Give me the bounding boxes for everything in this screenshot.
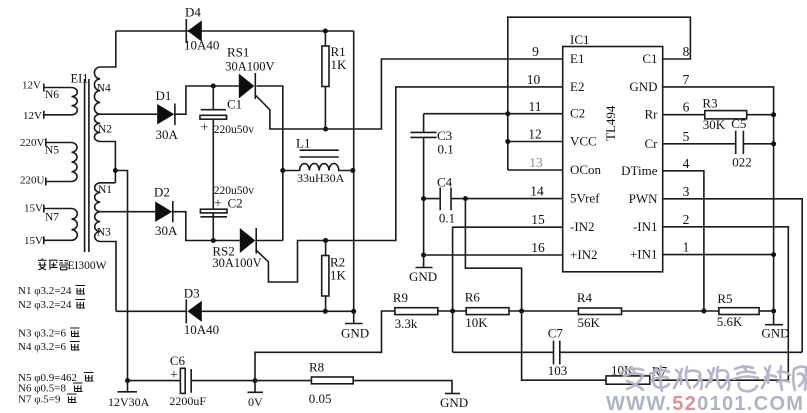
- wire RS2 gate to E2 (pin 10): [256, 87, 563, 282]
- svg-text:GND: GND: [341, 326, 369, 341]
- winding spec list: [18, 285, 77, 406]
- transformer EI1 core: [71, 72, 89, 253]
- svg-text:16: 16: [531, 240, 545, 255]
- winding N6 primary left: [22, 80, 77, 123]
- wire x=353.7 vertical from top rail to GND junction: [353, 31, 355, 311]
- svg-text:GND: GND: [761, 326, 789, 341]
- svg-text:-IN1: -IN1: [633, 219, 658, 234]
- svg-text:N1: N1: [98, 184, 112, 196]
- svg-text:C2: C2: [228, 196, 243, 211]
- U1 pin labels left: [570, 51, 602, 262]
- svg-text:N7: N7: [45, 212, 59, 224]
- svg-text:D3: D3: [184, 286, 200, 301]
- svg-text:D1: D1: [156, 88, 172, 103]
- svg-text:1K: 1K: [331, 57, 348, 72]
- inductor L1: [283, 136, 353, 186]
- node 0V junction: [253, 378, 258, 383]
- wire RS1 gate to E1 (pin 9): [256, 59, 563, 129]
- svg-text:30A100V: 30A100V: [212, 256, 261, 270]
- svg-text:220U: 220U: [20, 175, 45, 187]
- ground below C3 rail: [409, 268, 437, 285]
- svg-text:0.1: 0.1: [439, 211, 455, 226]
- svg-text:4: 4: [683, 156, 690, 171]
- svg-text:TL494: TL494: [603, 105, 618, 141]
- transformer spec label: [38, 258, 107, 272]
- svg-text:3.3k: 3.3k: [395, 316, 418, 331]
- svg-text:14: 14: [530, 184, 544, 199]
- capacitor C3: [410, 114, 453, 268]
- svg-text:C4: C4: [437, 175, 453, 190]
- wire N1/N3 tap to D2: [100, 211, 155, 213]
- svg-text:+: +: [170, 368, 178, 383]
- svg-text:R9: R9: [393, 290, 408, 305]
- node R6/R4 junction: [519, 309, 524, 314]
- IC U1 TL494 box: [563, 32, 663, 272]
- svg-text:11: 11: [529, 99, 542, 114]
- wire pin 11 row: [424, 113, 563, 115]
- resistor R1: [322, 31, 347, 129]
- ground right rail: [761, 311, 789, 341]
- svg-text:R8: R8: [309, 360, 324, 375]
- wire pin 1 row: [663, 254, 774, 256]
- node pin16 junction: [421, 253, 426, 258]
- svg-text:N4: N4: [97, 83, 111, 95]
- svg-text:R4: R4: [577, 290, 593, 305]
- svg-text:C1: C1: [227, 97, 242, 112]
- svg-text:N3 φ3.2=6: N3 φ3.2=6: [18, 328, 66, 340]
- svg-text:022: 022: [732, 155, 752, 170]
- wire 5Vref drop to R6/R4 node: [465, 199, 521, 311]
- power terminal 0V: [248, 381, 264, 409]
- zha glyphs for spec list: [67, 286, 94, 403]
- svg-text:15: 15: [531, 212, 545, 227]
- wire N4/N2 tap to D1: [100, 113, 157, 115]
- svg-text:E2: E2: [570, 79, 584, 94]
- resistor R2: [322, 241, 347, 312]
- node C4 left junction: [421, 196, 426, 201]
- svg-text:EI300W: EI300W: [68, 260, 107, 272]
- capacitor C4: [424, 175, 563, 226]
- U1 pin labels right: [621, 51, 658, 262]
- svg-text:N2: N2: [98, 124, 112, 136]
- svg-text:10: 10: [527, 72, 541, 87]
- node R2 top junction: [323, 238, 328, 243]
- svg-text:30A100V: 30A100V: [225, 60, 274, 74]
- node 12V30A junction: [125, 378, 130, 383]
- svg-text:1K: 1K: [330, 268, 347, 283]
- svg-text:5Vref: 5Vref: [570, 191, 600, 206]
- watermark cursive site name: [622, 366, 807, 391]
- svg-text:220V: 220V: [20, 137, 45, 149]
- svg-text:N3: N3: [97, 227, 111, 239]
- svg-text:GND: GND: [629, 79, 657, 94]
- winding N1 right: [95, 183, 116, 212]
- wire pin 16 row: [424, 254, 563, 256]
- node L1 left junction: [280, 168, 285, 173]
- svg-text:30A: 30A: [155, 223, 178, 238]
- svg-text:DTime: DTime: [621, 163, 658, 178]
- svg-text:N1 φ3.2=24: N1 φ3.2=24: [18, 285, 72, 297]
- svg-text:GND: GND: [440, 395, 468, 410]
- svg-text:OCon: OCon: [570, 162, 602, 177]
- svg-text:12V: 12V: [23, 110, 42, 122]
- svg-text:Rr: Rr: [645, 107, 659, 122]
- resistor R4: [577, 290, 719, 330]
- svg-text:D4: D4: [185, 5, 201, 20]
- wire pin 3 PWN drop to C7 right: [663, 199, 803, 352]
- node pin 12 rail junction: [505, 139, 510, 144]
- resistor R6: [465, 290, 579, 331]
- node R4/R5 junction: [701, 309, 706, 314]
- ground right of R8: [440, 394, 468, 411]
- svg-text:C1: C1: [642, 51, 657, 66]
- node R5 right junction: [771, 309, 776, 314]
- svg-text:+IN1: +IN1: [630, 247, 658, 262]
- svg-text:15V: 15V: [24, 203, 43, 215]
- svg-text:R6: R6: [465, 290, 481, 305]
- thyristor RS1: [225, 45, 274, 100]
- svg-text:30K: 30K: [703, 117, 726, 132]
- svg-text:E1: E1: [570, 51, 584, 66]
- svg-text:PWN: PWN: [629, 191, 659, 206]
- node GND tap junction: [351, 309, 356, 314]
- svg-text:EI1: EI1: [71, 72, 89, 86]
- node C2 bottom junction: [211, 238, 216, 243]
- svg-text:2: 2: [683, 212, 690, 227]
- node R1 bottom junction: [323, 127, 328, 132]
- resistor R9: [393, 290, 466, 331]
- resistor R8: [309, 360, 353, 407]
- wire bottom 12V rail: [128, 381, 453, 394]
- svg-text:0.05: 0.05: [309, 391, 332, 406]
- svg-text:5.6K: 5.6K: [717, 314, 743, 329]
- svg-text:C6: C6: [170, 353, 186, 368]
- svg-text:R3: R3: [702, 96, 717, 111]
- winding N2 right: [94, 114, 115, 183]
- winding N3 right: [95, 212, 116, 312]
- winding N5 mains left: [20, 137, 77, 187]
- wire D2 cathode to RS2 anode rail: [173, 212, 240, 241]
- svg-text:10K: 10K: [465, 315, 488, 330]
- svg-text:N2 φ3.2=24: N2 φ3.2=24: [18, 299, 72, 311]
- svg-text:0V: 0V: [248, 395, 263, 409]
- wire R6/R4 node drop to R7: [522, 311, 606, 380]
- svg-text:VCC: VCC: [570, 134, 597, 149]
- svg-text:1: 1: [683, 240, 690, 255]
- wire pin 4 DTime drop to R4/R5 node: [663, 171, 704, 311]
- node C4 right junction: [463, 196, 468, 201]
- svg-text:9: 9: [532, 44, 539, 59]
- svg-text:8: 8: [683, 44, 690, 59]
- svg-text:13: 13: [529, 155, 543, 170]
- capacitor C6: [169, 353, 206, 408]
- resistor R7: [606, 363, 788, 385]
- wire left rail pins 8/11/12/13 loop: [508, 17, 691, 170]
- svg-text:7: 7: [683, 72, 690, 87]
- resistor R3: [663, 96, 774, 133]
- wire pin 15 row and drop to R9/R6 node: [453, 227, 563, 352]
- thyristor RS2: [212, 228, 261, 270]
- svg-text:10A40: 10A40: [184, 38, 219, 53]
- svg-text:N4 φ3.2=6: N4 φ3.2=6: [18, 341, 66, 353]
- svg-text:15V: 15V: [24, 235, 43, 247]
- diode D4: [184, 5, 219, 53]
- diode D1: [156, 88, 179, 142]
- svg-text:N7 φ.5=9: N7 φ.5=9: [18, 394, 61, 406]
- node C5 right junction: [771, 141, 776, 146]
- svg-text:3: 3: [683, 184, 690, 199]
- svg-text:30A: 30A: [156, 127, 179, 142]
- node pin 1 rail junction: [771, 252, 776, 257]
- winding N7 left: [24, 203, 77, 248]
- pin numbers right: [683, 44, 690, 255]
- svg-text:R5: R5: [717, 291, 732, 306]
- svg-text:Cr: Cr: [645, 136, 659, 151]
- node R1 top junction: [323, 29, 328, 34]
- node L1 right junction: [350, 168, 355, 173]
- power terminal 12V30A: [108, 381, 150, 409]
- svg-text:L1: L1: [296, 136, 310, 151]
- wire pin 2 -IN1 drop to R7 right: [663, 227, 789, 380]
- svg-text:D2: D2: [154, 185, 170, 200]
- wire RS1 cathode down to RS2 cathode: [257, 86, 283, 241]
- svg-text:N5: N5: [45, 145, 59, 157]
- diode D3: [184, 286, 219, 338]
- resistor R5: [717, 291, 774, 329]
- capacitor C1: [200, 86, 254, 209]
- svg-text:-IN2: -IN2: [570, 219, 595, 234]
- node C1 top junction: [211, 84, 216, 89]
- svg-text:6: 6: [683, 100, 690, 115]
- node R2 bottom junction: [323, 309, 328, 314]
- capacitor C5: [663, 116, 774, 170]
- wire D1 cathode to RS1 anode rail: [175, 86, 239, 114]
- wire top rail from transformer N4 through D4 to x=353.7: [116, 30, 354, 32]
- svg-text:5: 5: [683, 129, 690, 144]
- svg-text:12V30A: 12V30A: [108, 395, 150, 409]
- svg-text:+: +: [214, 197, 222, 212]
- svg-text:56K: 56K: [578, 315, 601, 330]
- pin numbers left: [527, 44, 545, 255]
- svg-text:+IN2: +IN2: [570, 247, 598, 262]
- wire 0V node up to R9 left: [255, 311, 395, 381]
- svg-text:C7: C7: [548, 326, 564, 341]
- svg-text:GND: GND: [409, 269, 437, 284]
- svg-text:12V: 12V: [22, 80, 41, 92]
- ground under R2: [341, 311, 369, 340]
- wire D3 row from transformer N3 bottom: [116, 310, 186, 312]
- node R9/R6 junction: [450, 309, 455, 314]
- svg-text:C5: C5: [731, 116, 746, 131]
- svg-text:0.1: 0.1: [438, 142, 454, 157]
- wire pin 7 row and right GND rail: [663, 87, 774, 311]
- diode D2: [154, 185, 178, 239]
- winding N4 secondary right: [94, 31, 115, 114]
- svg-text:33uH30A: 33uH30A: [297, 171, 345, 185]
- capacitor C7: [453, 326, 803, 379]
- capacitor C2: [200, 185, 254, 241]
- wire D3 cathode to R2 bottom and GND: [202, 310, 354, 312]
- node R3 right junction: [771, 112, 776, 117]
- svg-text:2200uF: 2200uF: [169, 394, 206, 408]
- node transformer center tap: [113, 168, 128, 381]
- svg-text:IC1: IC1: [570, 32, 590, 47]
- svg-text:103: 103: [548, 363, 568, 378]
- svg-text:220u50v: 220u50v: [214, 124, 255, 136]
- node pin 11 rail junction: [505, 111, 510, 116]
- svg-text:WWW.520101.COM: WWW.520101.COM: [606, 393, 804, 413]
- svg-text:C2: C2: [570, 106, 585, 121]
- svg-text:12: 12: [528, 127, 542, 142]
- svg-text:N6: N6: [45, 89, 59, 101]
- svg-text:10A40: 10A40: [184, 322, 219, 337]
- svg-text:RS1: RS1: [227, 45, 249, 60]
- svg-text:+: +: [201, 121, 209, 136]
